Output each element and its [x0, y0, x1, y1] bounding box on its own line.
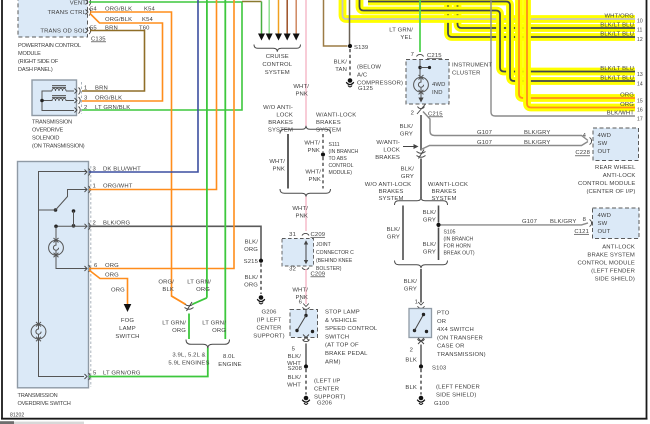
PCM caption [18, 43, 81, 73]
svg-text:ORG: ORG [196, 287, 210, 293]
svg-text:CENTER: CENTER [314, 387, 339, 393]
svg-text:SYSTEM: SYSTEM [316, 128, 341, 134]
switch lamp (lower, on rail) [31, 322, 46, 341]
svg-text:WHT/: WHT/ [292, 206, 308, 212]
svg-text:LT GRN/: LT GRN/ [202, 321, 226, 327]
svg-text:SIDE SHIELD): SIDE SHIELD) [595, 277, 635, 283]
solenoid internal junction dot [40, 99, 44, 103]
frame left [1, 0, 3, 420]
PTO 4x4 switch box [409, 309, 432, 338]
frame bottom [1, 418, 648, 420]
label 4WD IND [432, 82, 446, 96]
rear module 4WD SW OUT [598, 133, 612, 155]
labels G107 BLK/GRY (S105 wire) [522, 219, 576, 225]
svg-text:BLK/: BLK/ [401, 167, 415, 173]
svg-text:W/ANTI-LOCK: W/ANTI-LOCK [428, 182, 468, 188]
wire BLK/GRY cluster pin2 down [420, 115, 422, 151]
svg-text:(BELOW: (BELOW [357, 65, 381, 71]
G206 caption (stop lamp) [314, 379, 346, 407]
svg-text:BLK/: BLK/ [423, 242, 437, 248]
stop lamp switch caption [325, 310, 378, 366]
svg-text:8.0L: 8.0L [223, 354, 236, 360]
label WHT/PNK upper [293, 84, 309, 98]
svg-text:K54: K54 [142, 17, 154, 23]
caption W/O anti-lock brakes system (left col) [263, 105, 293, 134]
instrument cluster caption [452, 63, 492, 77]
svg-text:SIDE SHIELD): SIDE SHIELD) [436, 393, 476, 399]
svg-text:GRY: GRY [404, 287, 417, 293]
svg-text:32: 32 [289, 267, 296, 273]
svg-text:PNK: PNK [307, 148, 320, 154]
svg-text:8: 8 [583, 217, 587, 223]
wire BLK/WHT (stop lamp to S208) [305, 344, 307, 365]
splice S215 [259, 259, 263, 263]
svg-text:SOLENOID: SOLENOID [32, 136, 59, 142]
svg-text:CLUSTER: CLUSTER [452, 71, 481, 77]
svg-text:G125: G125 [358, 86, 374, 92]
svg-text:TRANSMISSION: TRANSMISSION [32, 120, 72, 126]
joint connector pass-through arrow [304, 240, 308, 264]
cruise arrows [258, 34, 300, 41]
svg-text:5: 5 [292, 347, 296, 353]
svg-text:TRANS OD SOL: TRANS OD SOL [40, 29, 86, 35]
connector label C135 [91, 37, 106, 43]
wire ORG 15 highlight band [519, 0, 635, 98]
wire BLK/GRY branch to rear ABS pin 4 (upper) [423, 112, 588, 141]
labels G107 BLK/GRY (upper pair) [477, 130, 550, 136]
wire BLK/WHT 17 [491, 0, 635, 116]
switch connector dashed strip [90, 166, 92, 387]
svg-text:LT GRN/: LT GRN/ [162, 321, 186, 327]
joint connector pin 32 C209 [289, 267, 325, 278]
wire BLK/TAN dashed (S139 to G125) [349, 49, 351, 78]
svg-text:2: 2 [411, 111, 414, 117]
svg-text:GRY: GRY [400, 132, 413, 138]
label WHT/PNK mid [292, 206, 308, 220]
svg-text:(AT TOP OF: (AT TOP OF [325, 343, 359, 349]
joint connector pin 31 C209 [289, 232, 325, 238]
svg-text:ORG: ORG [620, 93, 634, 99]
cruise control system caption [262, 54, 292, 76]
label ORG/BLK at connector [158, 280, 174, 294]
solenoid pin 1 [75, 88, 81, 95]
wire BLK/GRY w/o branch [402, 206, 404, 261]
wire WHT/PNK below S111 (dashed) [322, 157, 324, 189]
wire ORG/BLK K54 #1 (PCM 54 to inline connector) [90, 12, 186, 305]
svg-text:ANTI-LOCK: ANTI-LOCK [603, 173, 636, 179]
wire ORG 16 [527, 0, 635, 108]
svg-text:IND: IND [432, 90, 443, 96]
svg-text:BRAKES: BRAKES [316, 120, 341, 126]
svg-text:BLK/: BLK/ [288, 375, 302, 381]
wire LT GRN/ORG (switch pin 5 to engine brace) [89, 348, 208, 377]
svg-text:ORG: ORG [105, 273, 119, 279]
svg-text:K54: K54 [144, 6, 156, 12]
svg-text:BRAKES: BRAKES [379, 189, 404, 195]
label ORG/BLK K54 (second) [105, 17, 154, 23]
ABS module pin 8 C121 [574, 217, 592, 235]
label BLK/TAN [334, 60, 348, 74]
svg-text:WHT/: WHT/ [305, 170, 321, 176]
svg-text:4: 4 [583, 133, 587, 139]
switch pin 1 [85, 186, 91, 193]
cluster pin 7 C215 [411, 52, 443, 59]
svg-text:13: 13 [637, 72, 643, 78]
label 5 LT GRN/ORG [93, 371, 141, 377]
svg-text:BRAKES: BRAKES [268, 120, 293, 126]
ground G206 (stop lamp) [302, 396, 310, 405]
switch pin 5 [85, 373, 91, 380]
svg-text:VENT: VENT [70, 1, 87, 7]
svg-text:LOCK: LOCK [276, 113, 293, 119]
svg-text:16: 16 [637, 108, 643, 114]
svg-text:(LEFT FENDER: (LEFT FENDER [591, 269, 635, 275]
brace BLK/GRY merge [395, 261, 448, 269]
svg-text:12: 12 [637, 37, 643, 43]
svg-text:ENGINE: ENGINE [218, 362, 242, 368]
svg-text:55: 55 [90, 25, 97, 31]
switch pin 3 [85, 169, 91, 176]
svg-text:ORG/WHT: ORG/WHT [103, 184, 133, 190]
svg-text:LT GRN/BLK: LT GRN/BLK [95, 105, 130, 111]
PCM box (Powertrain Control Module) [18, 0, 88, 37]
wire ORG 15 [519, 0, 635, 98]
wire BLK/GRY below connector [420, 159, 422, 199]
svg-text:3.9L, 5.2L &: 3.9L, 5.2L & [172, 353, 205, 359]
switch pin 6 [85, 265, 91, 272]
label BLK/GRY (below S105) [423, 242, 437, 256]
label 2 LT GRN/BLK [84, 105, 130, 111]
bottom edge artifacts [0, 421, 14, 424]
frame right [646, 0, 648, 420]
svg-text:6: 6 [94, 263, 98, 269]
label BLK/GRY (right branch) [423, 210, 437, 224]
label LT GRN/ORG left branch [162, 321, 186, 335]
svg-text:S111: S111 [329, 142, 340, 148]
label 1 ORG/WHT [93, 184, 133, 190]
svg-text:STOP LAMP: STOP LAMP [325, 310, 360, 316]
instrument cluster box [406, 60, 449, 105]
label 6 ORG [94, 263, 119, 269]
svg-text:4WD: 4WD [432, 82, 446, 88]
svg-text:BLK/GRY: BLK/GRY [524, 140, 550, 146]
svg-text:BRAKES: BRAKES [375, 155, 400, 161]
svg-text:TO ABS: TO ABS [329, 156, 348, 162]
svg-text:BLK/LT BLU: BLK/LT BLU [600, 66, 634, 72]
switch second contact dropper [72, 209, 76, 227]
svg-text:FOG: FOG [121, 318, 134, 324]
svg-text:BLK/LT BLU: BLK/LT BLU [600, 23, 634, 29]
label 3 ORG/BLK [84, 96, 122, 102]
svg-text:1: 1 [93, 184, 96, 190]
wire ORG (switch pin 6 to fog lamp switch) [89, 270, 128, 304]
stop lamp switch pin 5 [292, 340, 310, 353]
label 54 ORG/BLK K54 [90, 6, 156, 12]
svg-text:1: 1 [415, 300, 418, 306]
wire ORG (switch pin 6 up) [89, 0, 234, 269]
svg-text:SYSTEM: SYSTEM [265, 70, 290, 76]
svg-text:GRY: GRY [423, 250, 436, 256]
wire WHT/PNK (joint connector to stop lamp switch) [305, 269, 307, 304]
label LT GRN/YEL [389, 28, 413, 42]
transmission overdrive switch box [18, 162, 89, 388]
wire BLK dashed (S103 to G100) [420, 369, 422, 395]
svg-text:ORG: ORG [212, 328, 226, 334]
svg-text:TRANSMISSION): TRANSMISSION) [437, 352, 486, 358]
svg-text:(LEFT FENDER: (LEFT FENDER [436, 385, 480, 391]
label BLK/GRY (left branch) [387, 227, 401, 241]
svg-text:(ON TRANSFER: (ON TRANSFER [437, 335, 483, 341]
svg-text:WHT/: WHT/ [293, 84, 309, 90]
svg-text:BLK/: BLK/ [245, 275, 259, 281]
svg-text:G107: G107 [477, 130, 492, 136]
svg-text:7: 7 [411, 52, 414, 58]
transmission overdrive solenoid box [32, 80, 77, 116]
label WHT/PNK below S111 [305, 170, 321, 184]
svg-text:SWITCH: SWITCH [115, 334, 139, 340]
solenoid coil L2 [52, 96, 66, 101]
svg-text:LAMP: LAMP [119, 326, 136, 332]
svg-text:ANTI-LOCK: ANTI-LOCK [602, 245, 635, 251]
switch pin 2 [85, 223, 91, 230]
label 3 DK BLU/WHT [93, 167, 142, 173]
svg-text:2: 2 [84, 105, 87, 111]
label WHT/PNK lower [292, 288, 308, 302]
ABS module caption [577, 245, 635, 283]
wire VENT LT GRN (PCM to solenoid pin 2 via x=242) [82, 2, 242, 110]
wire LT GRN/ORG diagonal into connector [193, 298, 207, 304]
svg-text:ORG: ORG [244, 283, 258, 289]
svg-text:G107: G107 [477, 140, 492, 146]
caption W/anti-lock brakes system (BLK/GRY right) [428, 182, 468, 202]
svg-text:CONTROL: CONTROL [329, 163, 354, 169]
svg-text:GRY: GRY [401, 174, 414, 180]
svg-text:BLK/GRY: BLK/GRY [524, 130, 550, 136]
engine variant brace [186, 340, 230, 349]
svg-text:ORG/BLK: ORG/BLK [95, 96, 122, 102]
label BLK/ORG below S215 [244, 275, 258, 289]
svg-text:PNK: PNK [295, 214, 308, 220]
svg-text:2: 2 [410, 348, 413, 354]
wire WHT/PNK w/o ABS branch [287, 134, 289, 189]
svg-text:G206: G206 [261, 310, 277, 316]
svg-text:CONTROL: CONTROL [262, 62, 292, 68]
wire BLK/LT BLU 11 highlight band [458, 0, 636, 28]
svg-text:WHT/: WHT/ [304, 141, 320, 147]
svg-text:BRN: BRN [95, 86, 108, 92]
svg-text:1: 1 [84, 86, 87, 92]
svg-text:BLK/ORG: BLK/ORG [103, 221, 131, 227]
svg-text:PNK: PNK [308, 177, 321, 183]
svg-text:INSTRUMENT: INSTRUMENT [452, 63, 492, 69]
wire BLK/TAN from top to S139 [349, 0, 351, 44]
PCM pin VENT [86, 0, 91, 6]
joint connector C box [282, 239, 314, 267]
svg-text:(LEFT I/P: (LEFT I/P [314, 379, 340, 385]
wire BRN T60 (PCM 55 to solenoid pin 1) [82, 31, 145, 92]
svg-text:BLK/: BLK/ [288, 354, 302, 360]
PTO switch pin 1 [415, 300, 425, 309]
label BLK/GRY above PTO [404, 279, 418, 293]
svg-text:(IP LEFT: (IP LEFT [257, 318, 282, 324]
stop lamp switch contacts [295, 310, 314, 341]
svg-text:TRANSMISSION: TRANSMISSION [18, 393, 58, 399]
svg-text:S103: S103 [432, 366, 447, 372]
wire LT GRN (long vertical to connector) [206, 0, 208, 298]
svg-text:BRN: BRN [105, 25, 118, 31]
cruise brace [254, 45, 301, 52]
brace WHT/PNK merge [280, 189, 331, 197]
PCM pin 54 TRANS CTRL [86, 9, 91, 16]
splice S103 [419, 364, 423, 368]
svg-text:ARM): ARM) [325, 359, 341, 365]
svg-text:CASE OR: CASE OR [437, 344, 465, 350]
svg-text:10: 10 [637, 19, 643, 25]
svg-text:TAN: TAN [335, 67, 347, 73]
wire LT GRN/YEL (to cluster pin 7) [419, 0, 421, 52]
cruise wire 5 ORG/LT BLU [295, 0, 297, 34]
PTO switch pin 2 [410, 338, 425, 354]
wire ORG 16 highlight band [527, 0, 635, 108]
wire BLK/LT BLU 12 highlight band [448, 0, 635, 37]
exit pin numbers 10-17 [637, 19, 643, 123]
switch internal rail [39, 172, 88, 377]
svg-text:SW: SW [598, 221, 608, 227]
S105 caption [444, 230, 475, 257]
svg-text:CONTROL MODULE: CONTROL MODULE [577, 261, 635, 267]
svg-text:17: 17 [637, 117, 643, 123]
solenoid pin 3 [75, 97, 81, 104]
svg-text:ORG: ORG [620, 102, 634, 108]
ground G125 [346, 78, 354, 87]
svg-text:ORG/BLK: ORG/BLK [105, 6, 132, 12]
svg-text:W/ANTI-LOCK: W/ANTI-LOCK [316, 113, 356, 119]
splice S105 [436, 223, 440, 227]
S111 caption [329, 142, 359, 176]
wire BLK/GRY (S105 to ABS module pin 8) [441, 223, 589, 225]
rear wheel ABS module box [593, 128, 639, 161]
svg-text:CRUISE: CRUISE [266, 54, 289, 60]
ground G100 [417, 396, 425, 405]
cluster wire to pin 2 with arrow [418, 93, 423, 103]
caption W/anti-lock brakes system (right col) [316, 113, 356, 134]
svg-text:15: 15 [637, 99, 643, 105]
junction dot lamp tap [54, 225, 58, 229]
wire BLK/WHT dashed (S208 to G206) [305, 369, 307, 395]
svg-text:6: 6 [299, 300, 303, 306]
svg-text:BLK/GRY: BLK/GRY [550, 219, 576, 225]
wire BLK/LT BLU 11 [458, 0, 636, 28]
svg-text:ORG: ORG [111, 288, 125, 294]
svg-text:31: 31 [289, 232, 296, 238]
svg-text:4WD: 4WD [598, 213, 612, 219]
label BLK/WHT upper [287, 354, 301, 367]
wire ORG/BLK K54 #2 (PCM 54 to solenoid pin 3) [82, 14, 163, 102]
svg-text:CONTROL MODULE: CONTROL MODULE [578, 181, 636, 187]
joint connector caption [316, 242, 354, 272]
svg-text:BLK: BLK [405, 385, 417, 391]
svg-text:BRAKES: BRAKES [432, 189, 457, 195]
svg-text:BLK/WHT: BLK/WHT [607, 111, 634, 117]
cluster internal wire + tap [418, 60, 431, 78]
splice S111 [321, 152, 325, 156]
PTO switch contacts [413, 313, 428, 333]
svg-text:BLK: BLK [405, 358, 417, 364]
svg-text:FOR HORN: FOR HORN [444, 244, 471, 250]
svg-text:WHT/ORG: WHT/ORG [604, 14, 634, 20]
labels G107 BLK/GRY (lower pair) [477, 140, 550, 146]
svg-text:ORG: ORG [105, 263, 119, 269]
svg-text:JOINT: JOINT [316, 242, 331, 248]
svg-text:MODULE): MODULE) [329, 170, 353, 176]
svg-text:W/O ANTI-: W/O ANTI- [263, 105, 293, 111]
cruise wire 3 ORG [278, 0, 280, 34]
switch caption [18, 393, 71, 407]
wire ORG/WHT (switch pin 1 up) [89, 0, 217, 190]
svg-text:REAR WHEEL: REAR WHEEL [595, 165, 636, 171]
svg-text:G107: G107 [522, 219, 537, 225]
svg-text:S139: S139 [354, 45, 368, 51]
svg-text:ORG/BLK: ORG/BLK [105, 17, 132, 23]
svg-text:BLK/: BLK/ [387, 227, 401, 233]
wire DK BLU/WHT (switch pin 3 up) [89, 0, 198, 172]
svg-text:3: 3 [93, 167, 97, 173]
wire BLK/LT BLU 13 [360, 0, 636, 72]
solenoid caption [32, 120, 85, 150]
wire BLK/GRY w/ branch upper [438, 206, 440, 223]
svg-text:& VEHICLE: & VEHICLE [325, 318, 357, 324]
svg-text:(BEHIND KNEE: (BEHIND KNEE [316, 258, 353, 264]
cruise wire 1 horizontal (dk grn) [242, 1, 262, 3]
svg-text:BLK/: BLK/ [400, 124, 414, 130]
wire BLK/LT BLU 13 highlight band [360, 0, 636, 72]
svg-text:BLK/: BLK/ [404, 279, 418, 285]
label BLK/WHT lower [287, 375, 301, 389]
wire BLK/GRY branch to rear ABS pin 4 (lower) [421, 142, 588, 150]
svg-text:S215: S215 [244, 259, 259, 265]
wire WHT/ORG 10 [343, 0, 636, 19]
svg-text:ORG: ORG [244, 247, 258, 253]
svg-text:OVERDRIVE SWITCH: OVERDRIVE SWITCH [18, 401, 71, 407]
svg-text:54: 54 [90, 6, 97, 12]
label LT GRN/ORG at connector [187, 280, 211, 294]
solenoid internal wiring [42, 91, 74, 111]
svg-text:OVERDRIVE: OVERDRIVE [32, 128, 63, 134]
svg-text:(CENTER OF I/P): (CENTER OF I/P) [586, 189, 635, 195]
label BLK/GRY below connector [401, 167, 415, 181]
label 55 BRN T60 [90, 25, 150, 31]
wire BLK/TAN vertical + branch to S139 [324, 0, 348, 46]
brace WHT/PNK split [280, 126, 331, 134]
svg-text:TRANS CTRL: TRANS CTRL [48, 10, 87, 16]
svg-text:14: 14 [637, 82, 643, 88]
svg-text:BLK/: BLK/ [245, 240, 259, 246]
caption W/O anti-lock brakes system (BLK/GRY left) [365, 182, 411, 202]
ABS module 4WD SW OUT [598, 213, 612, 235]
svg-text:W/O ANTI-LOCK: W/O ANTI-LOCK [365, 182, 411, 188]
svg-text:SW: SW [598, 141, 608, 147]
svg-text:5.9L ENGINES: 5.9L ENGINES [168, 361, 209, 367]
rear wheel module caption [578, 165, 636, 195]
label BLK/ORG above S215 [244, 240, 258, 254]
svg-text:POWERTRAIN CONTROL: POWERTRAIN CONTROL [18, 43, 81, 49]
svg-text:(IN BRANCH: (IN BRANCH [329, 149, 359, 155]
svg-text:OUT: OUT [598, 229, 611, 235]
svg-text:CONNECTOR C: CONNECTOR C [316, 250, 354, 256]
svg-text:PNK: PNK [272, 167, 285, 173]
switch pin2 internal wire [56, 225, 87, 227]
wire BLK (PTO to S103) [420, 345, 422, 365]
